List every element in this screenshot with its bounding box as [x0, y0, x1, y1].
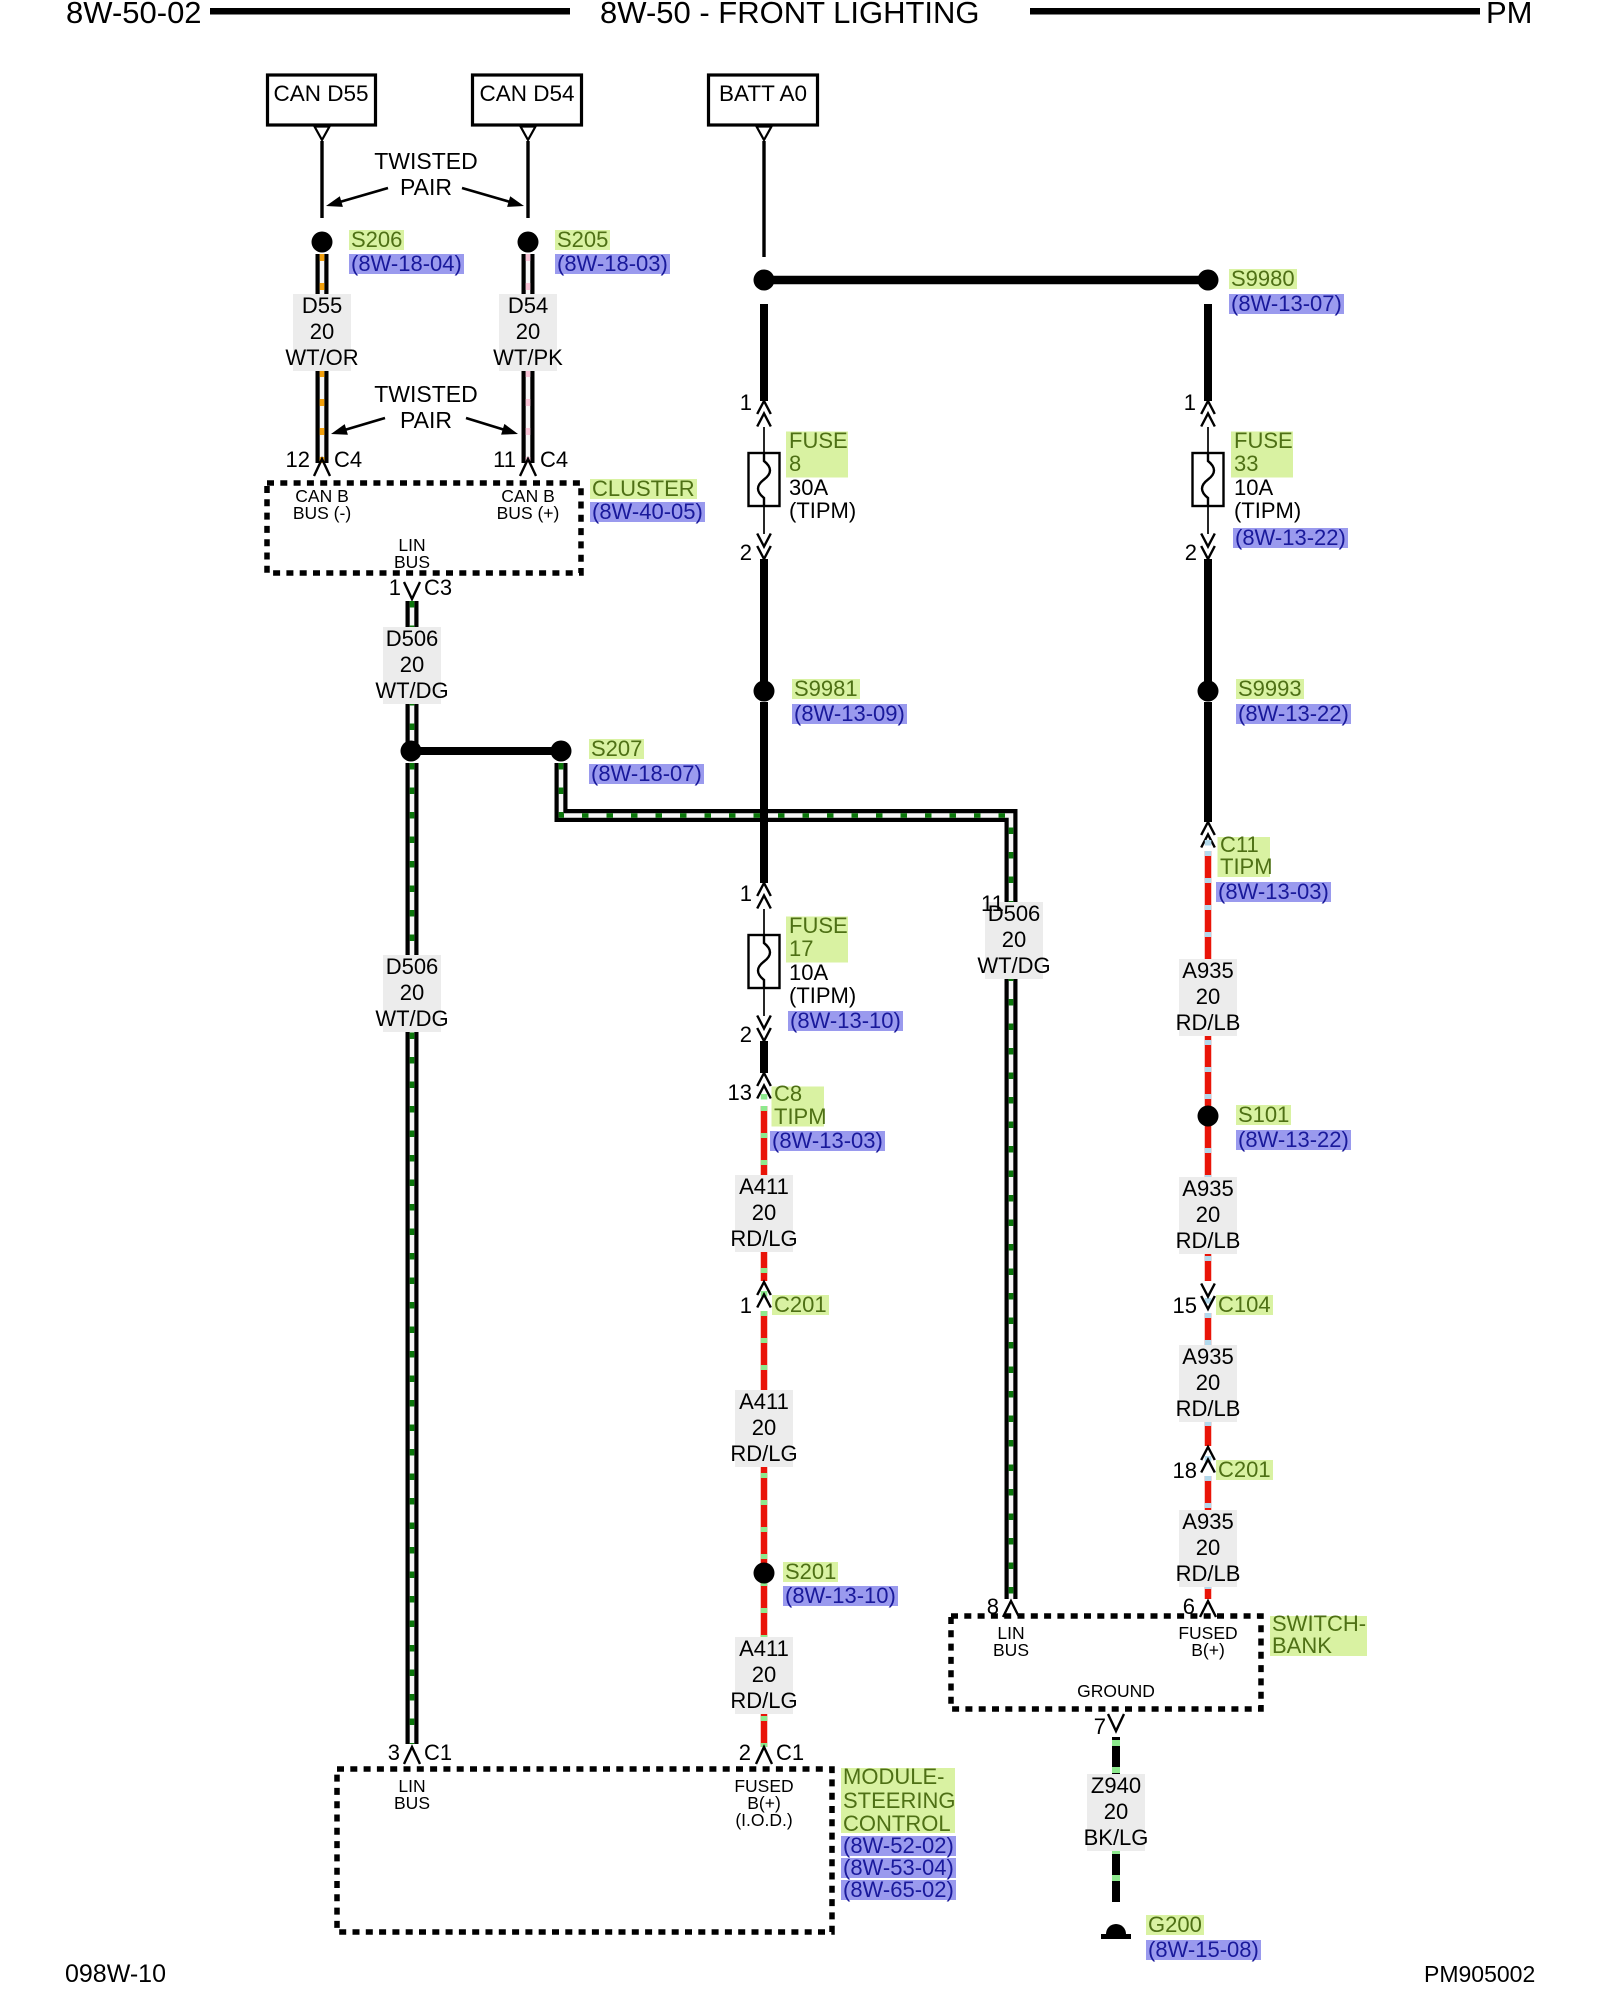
wire CAN D55 to splice S206 — [320, 141, 323, 218]
wire D506 WT/DG right branch — [561, 763, 1011, 1599]
fuse F33 ref — [1233, 525, 1348, 551]
ground G200 label — [1146, 1912, 1204, 1938]
pin 18 label — [1173, 1460, 1197, 1482]
fuse F33 — [1193, 453, 1224, 506]
fuse F8 location — [789, 499, 856, 522]
module MODULE-STEERING CONTROL label — [843, 1765, 955, 1835]
splice S205 ref — [555, 251, 670, 277]
wire fuse 8 upper thin — [763, 427, 765, 461]
splice S9980 — [1198, 270, 1219, 291]
splice S207 left dot — [401, 741, 422, 762]
wire label A935 20 RD/LB (2) — [1176, 1176, 1241, 1253]
wire label A935 20 RD/LB (1) — [1176, 958, 1241, 1035]
splice S206 label — [349, 227, 404, 253]
fuse 33 pin 1 chevrons — [1201, 401, 1215, 427]
wire S9981 to fuse 17 — [760, 702, 768, 883]
connector C1 (pin 3) label — [424, 1742, 452, 1764]
wire label A935 20 RD/LB (3) highlight — [1179, 1345, 1237, 1422]
pin 15 label — [1173, 1295, 1197, 1317]
wire label D54 20 WT/PK highlight — [499, 294, 557, 371]
wire label A935 20 RD/LB (4) highlight — [1179, 1510, 1237, 1587]
node CAN D55 label — [273, 83, 368, 106]
fuse F33 rating — [1234, 476, 1273, 499]
splice S101 ref — [1236, 1127, 1351, 1153]
connector C201 label (center) — [772, 1292, 829, 1318]
pin 11 label (switch-bank wire) — [981, 893, 1004, 915]
connector C4 pin 12 chevron — [314, 459, 330, 476]
wire fuse 17 to C8 — [760, 1041, 768, 1073]
wire label A411 20 RD/LG (2) — [730, 1389, 797, 1466]
wire A411 tracer dash at C8 — [761, 1094, 768, 1100]
wire label A935 20 RD/LB (3) — [1176, 1344, 1241, 1421]
wire label D54 20 WT/PK — [493, 293, 563, 370]
splice S9993 label — [1236, 676, 1304, 702]
connector C201 chevrons (pin 1) — [757, 1282, 771, 1308]
wire label D506 20 WT/DG left highlight — [383, 955, 441, 1032]
pin 1 label (C201) — [740, 1295, 752, 1317]
pin 13 label — [728, 1082, 752, 1104]
wire label D506 20 WT/DG right highlight — [985, 902, 1043, 979]
wire label A935 20 RD/LB (2) highlight — [1179, 1177, 1237, 1254]
connector C3 chevron — [404, 582, 420, 599]
label twisted pair lower — [374, 381, 478, 433]
node BATT A0 label — [719, 83, 807, 106]
switch-bank pin 8 chevron — [1003, 1601, 1019, 1617]
module SWITCH-BANK label — [1272, 1613, 1366, 1658]
wire A935 RD/LB middle — [1205, 1313, 1212, 1446]
fuse F17 ref — [788, 1008, 903, 1034]
node CAN D54 — [473, 75, 582, 125]
pin function CAN B BUS (+) — [497, 488, 560, 522]
connector C1 (pin 2) label — [776, 1742, 804, 1764]
fuse F8 — [749, 453, 780, 506]
fuse F8 label highlight — [786, 432, 848, 478]
wire label D55 20 WT/OR — [285, 293, 358, 370]
wire label A411 20 RD/LG (3) highlight — [735, 1637, 793, 1714]
splice S201 — [754, 1563, 775, 1584]
wire fuse 8 to S9981 — [760, 559, 768, 691]
fuse F17 — [749, 935, 780, 988]
fuse F8 rating — [789, 476, 828, 499]
fuse 17 pin 1 chevrons — [757, 883, 771, 909]
connector C11 chevrons — [1201, 822, 1215, 848]
pin function CAN B BUS (-) — [293, 488, 351, 522]
splice S206 — [312, 232, 333, 253]
splice S206 ref — [349, 251, 464, 277]
pin function LIN BUS (switch-bank) — [993, 1625, 1029, 1659]
connector C4 pin 11 chevron — [520, 459, 536, 476]
wire fuse 17 upper thin — [763, 909, 765, 943]
fuse F8 label — [789, 430, 848, 475]
splice S9993 — [1198, 681, 1219, 702]
pin 6 label — [1183, 1596, 1195, 1618]
splice S9980 ref — [1229, 291, 1344, 317]
splice S201 ref — [783, 1583, 898, 1609]
connector triangle BATT A0 — [757, 127, 772, 141]
fuse F33 location — [1234, 499, 1301, 522]
splice S101 label — [1236, 1102, 1291, 1128]
wire A935 RD/LB lower — [1205, 1476, 1212, 1599]
pin 7 label — [1094, 1716, 1106, 1738]
fuse F17 rating — [789, 961, 828, 984]
module MODULE-STEERING CONTROL box — [337, 1769, 832, 1932]
pin 8 label — [987, 1596, 999, 1618]
connector C3 label — [424, 577, 452, 599]
splice S101 — [1198, 1106, 1219, 1127]
connector C1 pin 2 chevron — [756, 1747, 772, 1764]
connector C11 ref — [1216, 879, 1331, 905]
wire A935 tracer dash at C11 — [1205, 840, 1212, 846]
pin function GROUND — [1077, 1683, 1155, 1700]
junction dot BATT A0 — [754, 270, 775, 291]
fuse F33 label highlight — [1231, 432, 1293, 478]
arrow twisted pair lower left — [331, 418, 385, 435]
ground G200 — [1101, 1924, 1131, 1939]
pin 12 label — [286, 449, 310, 471]
fuse F17 label — [789, 915, 848, 960]
pin 2 label (C1) — [739, 1742, 751, 1764]
fuse 17 pin 2 chevrons — [757, 1016, 771, 1042]
pin 1 label (fuse 17) — [740, 883, 752, 905]
connector C8 ref — [770, 1128, 885, 1154]
module SWITCH-BANK label highlight — [1270, 1616, 1367, 1656]
wire label Z940 20 BK/LG — [1084, 1773, 1149, 1850]
connector triangle CAN D55 — [315, 127, 330, 141]
pin 11 label — [493, 449, 516, 471]
connector C201 chevrons (pin 18) — [1201, 1447, 1215, 1473]
pin function FUSED B(+) (I.O.D.) — [734, 1778, 793, 1829]
fuse F17 label highlight — [786, 917, 848, 963]
connector C4 (pin 11) label — [540, 449, 568, 471]
arrow twisted pair upper left — [326, 188, 388, 207]
wire A411 RD/LG upper — [761, 1106, 768, 1281]
wire D55 WT/OR — [316, 254, 329, 463]
connector C8 label highlight — [772, 1087, 825, 1127]
wire A411 tracer dash at C201 — [761, 1291, 768, 1297]
connector C8 chevrons — [757, 1073, 771, 1099]
wire label D506 20 WT/DG left — [375, 954, 448, 1031]
splice S9981 label — [792, 676, 860, 702]
wire label A411 20 RD/LG (2) highlight — [735, 1390, 793, 1467]
wire BATT junction to fuse 8 — [760, 304, 768, 401]
splice S207 right dot — [551, 741, 572, 762]
wire label D506 20 WT/DG upper highlight — [383, 627, 441, 704]
pin 2 label (fuse 8) — [740, 542, 752, 564]
module MODULE-STEERING CONTROL label highlight — [841, 1768, 955, 1833]
switch-bank pin 7 chevron — [1108, 1714, 1124, 1731]
connector C104 label — [1216, 1292, 1273, 1318]
node CAN D55 — [268, 75, 376, 125]
node CAN D54 label — [479, 83, 574, 106]
wire label A411 20 RD/LG (1) — [730, 1174, 797, 1251]
wire fuse 33 upper thin — [1207, 427, 1209, 461]
ground G200 ref — [1146, 1937, 1261, 1963]
module CLUSTER label — [590, 476, 697, 502]
wire A935 tracer dash at C104 — [1205, 1298, 1212, 1304]
label twisted pair upper — [374, 148, 478, 200]
wire label A935 20 RD/LB (4) — [1176, 1509, 1241, 1586]
splice S207 ref — [589, 761, 704, 787]
wire label A935 20 RD/LB (1) highlight — [1179, 959, 1237, 1036]
wire label D506 20 WT/DG upper — [375, 626, 448, 703]
wire label A411 20 RD/LG (1) highlight — [735, 1175, 793, 1252]
splice S207 label — [589, 736, 644, 762]
splice S205 label — [555, 227, 610, 253]
fuse 8 pin 2 chevrons — [757, 534, 771, 560]
connector C11 label highlight — [1218, 837, 1271, 877]
pin 1 label (fuse 33) — [1184, 392, 1196, 414]
pin 2 label (fuse 33) — [1185, 542, 1197, 564]
splice S201 label — [783, 1559, 838, 1585]
wire fuse 33 lower thin — [1207, 498, 1209, 534]
splice S9993 ref — [1236, 701, 1351, 727]
connector C104 chevrons (pin 15) — [1201, 1284, 1215, 1310]
wire fuse 8 lower thin — [763, 498, 765, 534]
wire A935 tracer dash at C201 — [1205, 1456, 1212, 1462]
fuse 33 pin 2 chevrons — [1201, 534, 1215, 560]
wire label D55 20 WT/OR highlight — [293, 294, 351, 371]
wire S9993 to C11 — [1204, 702, 1212, 822]
connector C11 label — [1220, 834, 1273, 879]
switch-bank pin 6 chevron — [1200, 1601, 1216, 1617]
wire CAN D54 to splice S205 — [526, 141, 529, 218]
pin function LIN BUS (cluster) — [394, 537, 430, 571]
wire A411 RD/LG lower — [761, 1311, 768, 1747]
wire label A411 20 RD/LG (3) — [730, 1636, 797, 1713]
wire label Z940 20 BK/LG highlight — [1087, 1774, 1145, 1851]
pin 1 label (fuse 8) — [740, 392, 752, 414]
arrow twisted pair lower right — [466, 418, 518, 435]
wire D506 WT/DG upper — [406, 601, 419, 746]
module CLUSTER ref — [590, 499, 705, 525]
pin 2 label (fuse 17) — [740, 1024, 752, 1046]
splice S9981 — [754, 681, 775, 702]
connector triangle CAN D54 — [521, 127, 536, 141]
fuse F33 label — [1234, 430, 1293, 475]
connector C4 (pin 12) label — [334, 449, 362, 471]
fuse F17 location — [789, 984, 856, 1007]
module MODULE-STEERING CONTROL refs — [841, 1835, 956, 1902]
connector C201 label (right) — [1216, 1457, 1273, 1483]
connector C1 pin 3 chevron — [404, 1747, 420, 1764]
splice S205 — [518, 232, 539, 253]
wire A935 RD/LB upper — [1205, 851, 1212, 1281]
wire S9980 to fuse 33 — [1204, 304, 1212, 401]
wire Z940 BK/LG — [1112, 1737, 1120, 1902]
pin function FUSED B(+) — [1178, 1625, 1237, 1659]
wire bus BATT to S9980 — [764, 276, 1208, 285]
pin 1 label (C3) — [389, 577, 401, 599]
node BATT A0 — [709, 75, 818, 125]
pin 3 label (C1) — [388, 1742, 400, 1764]
wire splice bar S207 — [411, 747, 561, 755]
wire fuse 17 lower thin — [763, 980, 765, 1016]
wire D506 WT/DG left branch — [406, 763, 419, 1744]
module CLUSTER box — [267, 483, 581, 573]
splice S9980 label — [1229, 266, 1297, 292]
wire label D506 20 WT/DG right — [977, 901, 1050, 978]
fuse 8 pin 1 chevrons — [757, 401, 771, 427]
module SWITCH-BANK box — [951, 1616, 1261, 1709]
splice S9981 ref — [792, 701, 907, 727]
pin function LIN BUS (module) — [394, 1778, 430, 1812]
arrow twisted pair upper right — [462, 188, 524, 207]
wire fuse 33 to S9993 — [1204, 559, 1212, 691]
connector C8 label — [774, 1083, 827, 1128]
wire BATT A0 to junction — [762, 141, 765, 257]
wire D54 WT/PK — [522, 254, 535, 463]
